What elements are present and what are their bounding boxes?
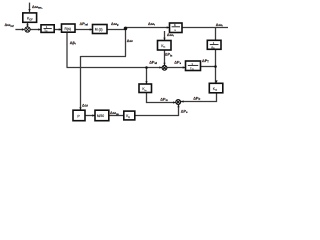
arrow into sum2 from top [163, 63, 165, 66]
M/30 box bottom [95, 110, 109, 121]
inertia box 1/(2Hs+D) [186, 61, 201, 71]
wire Kwi box down to sum3 [181, 93, 217, 102]
svg-text:ΔPref: ΔPref [80, 22, 89, 27]
droop box right 1/R [207, 40, 221, 49]
wire top into K box [29, 3, 31, 12]
svg-text:Δωme..: Δωme.. [32, 5, 43, 10]
arrow into sum3 from left [173, 101, 176, 103]
svg-text:K: K [174, 23, 176, 27]
wire main line down into Kin box [164, 31, 166, 41]
arrow sum1 top entry [26, 24, 28, 27]
wire box2 to box3 [54, 29, 61, 31]
wire box3 to M box [75, 29, 93, 31]
arrow into box3 [59, 28, 62, 30]
Kwi box [209, 83, 223, 93]
arrow into sum2 from left [159, 66, 162, 68]
arrow into Kwi box [215, 80, 217, 83]
wire K box to sum1 [27, 22, 29, 26]
wire beta line to sum2 [67, 67, 163, 69]
arrow into M box [90, 28, 93, 30]
wire washout box to right edge [182, 27, 228, 29]
wire inertia box to right column [201, 66, 216, 68]
wire input to sum1 [15, 29, 23, 31]
arrow into sum3 from bottom [177, 105, 179, 108]
arrow into box2 [38, 28, 41, 30]
junction dot inertia out on right column [214, 65, 217, 68]
arrow into Kin box [163, 38, 165, 41]
wire M box to node A [107, 29, 126, 31]
servo lag box 1/(Tsv s+1) [41, 25, 54, 33]
arrow into M30 box [92, 114, 95, 116]
arrow into washout box [167, 26, 170, 28]
P box bottom [73, 110, 85, 121]
svg-text:Δωr: Δωr [167, 33, 174, 38]
svg-text:Δωr: Δωr [216, 23, 223, 28]
svg-text:M (s): M (s) [95, 27, 103, 31]
summing junction sum3 [176, 100, 181, 105]
svg-text:R(s): R(s) [65, 27, 71, 31]
wire node A to washout box [126, 27, 170, 29]
svg-text:Δωg: Δωg [111, 22, 119, 27]
node A junction dot [124, 27, 128, 31]
wire across to pitch column [81, 56, 127, 58]
wire sum1 to box2 [30, 29, 41, 31]
summing junction sum1 [25, 27, 30, 32]
wire Kin box to sum2 [164, 50, 166, 65]
R(s) controller box [62, 24, 76, 32]
M(s) box [93, 25, 108, 34]
arrow into K box from top [28, 9, 30, 12]
arrow into sum1 [22, 28, 25, 30]
washout box on main line [170, 23, 183, 33]
wire sum2 to inertia box [167, 67, 186, 69]
svg-text:Δω: Δω [127, 39, 134, 43]
wire down into P box [80, 56, 82, 110]
wire P box to M30 box [85, 115, 95, 117]
wire box3 down [66, 32, 68, 68]
svg-text:Δωr: Δωr [148, 22, 155, 27]
KE box bottom [124, 111, 135, 120]
arrow into sum3 from right [181, 100, 184, 102]
arrow into P box top [79, 107, 81, 110]
wire right column vertical top [215, 28, 217, 41]
svg-text:M/30: M/30 [97, 114, 104, 118]
wire branch down to Km box [146, 68, 148, 85]
wire sum3 down to bottom row [135, 104, 179, 115]
K droop box top-left [23, 13, 37, 22]
wire right column between boxes [215, 49, 217, 83]
summing junction sum2 [162, 65, 167, 70]
arrow into inertia box [183, 66, 186, 68]
wire node A down [125, 28, 127, 56]
arrow into KE box [124, 114, 127, 116]
svg-text:Δω: Δω [82, 103, 89, 107]
wire Km box down and to sum3 [147, 93, 176, 103]
arrow into Km box [145, 81, 147, 84]
wire KE box to M30 box [109, 115, 124, 117]
Km box [139, 84, 152, 93]
junction dot beta line to Km [145, 66, 148, 69]
Kin box [158, 41, 172, 51]
